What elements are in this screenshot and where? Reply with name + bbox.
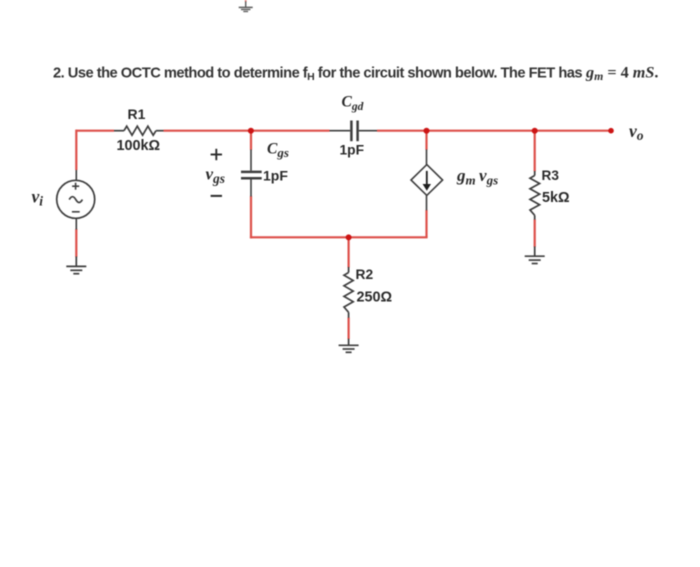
wire top rail: vi corner to R1 — [76, 130, 114, 132]
wire output node down to R3 — [534, 131, 536, 172]
wire top rail: Cgd to vo terminal — [377, 130, 611, 132]
node S (source node on bottom rail) — [346, 234, 352, 240]
wire drain node down to dependent source — [425, 131, 427, 150]
wire Cgs down to bottom rail — [250, 196, 252, 238]
svg-text:vi: vi — [32, 186, 44, 208]
svg-text:R1: R1 — [128, 106, 146, 122]
wire source node down to R2 — [348, 237, 350, 267]
node C (output R3 top) — [532, 128, 538, 134]
svg-text:R3: R3 — [542, 168, 560, 183]
ground (below R3) — [525, 247, 545, 264]
ground (below R2) — [339, 339, 359, 353]
svg-text:gm vgs: gm vgs — [456, 166, 498, 187]
dependent source gm*vgs — [411, 150, 443, 211]
vgs minus — [211, 195, 222, 197]
resistor R1 — [114, 126, 164, 135]
svg-text:Cgd: Cgd — [342, 93, 364, 112]
svg-text:R2: R2 — [356, 267, 374, 282]
vgs plus — [211, 149, 222, 160]
source vi — [57, 170, 95, 230]
svg-text:vgs: vgs — [206, 165, 226, 187]
node vo terminal — [608, 128, 614, 134]
svg-text:1pF: 1pF — [340, 142, 365, 157]
wire R3 down to ground — [534, 219, 536, 247]
wire R2 down to ground — [348, 318, 350, 340]
wire left rail upper (corner down to vi) — [75, 130, 77, 170]
wire dependent source down to bottom rail — [425, 210, 427, 237]
svg-text:2. Use the OCTC method to dete: 2. Use the OCTC method to determine fH f… — [53, 66, 582, 84]
node B (drain) — [424, 128, 430, 134]
wire left rail lower (vi to ground) — [75, 229, 77, 257]
svg-text:vo: vo — [629, 121, 644, 143]
wire bottom rail — [250, 236, 428, 238]
wire top rail: R1 to Cgd — [164, 130, 330, 132]
capacitor Cgd — [330, 121, 378, 142]
wire gate node down to Cgs — [250, 131, 252, 150]
svg-text:1pF: 1pF — [263, 168, 288, 184]
node A (gate) — [248, 128, 254, 134]
ground (top partial) — [239, 0, 253, 12]
svg-text:gm = 4 mS.: gm = 4 mS. — [585, 64, 658, 84]
svg-text:5kΩ: 5kΩ — [542, 190, 570, 206]
resistor R3 — [530, 171, 540, 220]
resistor R2 — [344, 267, 353, 318]
capacitor Cgs — [241, 150, 262, 197]
svg-text:Cgs: Cgs — [267, 141, 289, 161]
svg-text:250Ω: 250Ω — [357, 289, 393, 305]
svg-text:100kΩ: 100kΩ — [117, 138, 161, 154]
ground (below vi) — [66, 257, 86, 274]
